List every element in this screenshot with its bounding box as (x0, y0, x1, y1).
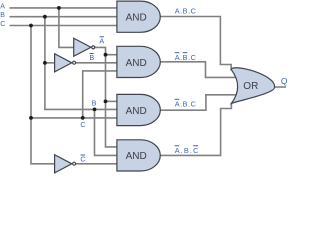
net label Abar.B.C (175, 99, 197, 108)
AND gate 2 (117, 46, 160, 77)
wire C branch up to AND2 (83, 71, 118, 118)
wire B branch down to AND4 (95, 109, 118, 155)
wire AND2 output to OR input 2 (160, 62, 236, 78)
svg-text:C: C (80, 154, 85, 163)
AND gate 1 (117, 1, 160, 32)
OR gate (231, 68, 274, 104)
svg-text:C: C (0, 21, 5, 28)
AND gate 3 (117, 94, 160, 125)
wire A branch down to inverter U1 (59, 8, 74, 48)
node label A-bar at U1 output (99, 37, 104, 46)
svg-text:C: C (80, 120, 85, 129)
junction dot B tee (93, 108, 97, 112)
svg-text:A.B.C: A.B.C (175, 99, 197, 108)
wire AND3 output to OR input 3 (160, 95, 236, 110)
node label B-bar at U2 output (89, 53, 94, 62)
AND gate 4 (117, 140, 160, 171)
junction dot on line A (57, 6, 61, 10)
svg-text:A.B.C: A.B.C (175, 6, 197, 15)
junction dot C tee (29, 116, 33, 120)
junction dot B to inverter U2 (43, 61, 47, 65)
wire input line B (10, 16, 118, 18)
svg-text:Q: Q (281, 76, 288, 86)
svg-text:AND: AND (126, 13, 147, 24)
wire C feed to AND3 (31, 117, 118, 119)
svg-text:OR: OR (243, 81, 258, 92)
junction dot on line C (29, 24, 33, 28)
inverter U1 (A-bar) (74, 38, 91, 56)
svg-text:A.B.C: A.B.C (175, 53, 197, 62)
wire NOT-C net from U3 to AND4 (76, 163, 118, 165)
wire AND4 output to OR input 4 (160, 103, 231, 156)
node label C-bar at U3 output (80, 154, 85, 163)
wire OR output to Q (275, 86, 286, 88)
wire B branch down (45, 17, 118, 110)
wire input line A (10, 7, 118, 9)
svg-text:B: B (92, 99, 97, 108)
svg-text:A: A (0, 3, 5, 10)
svg-text:B: B (0, 12, 5, 19)
inverter U2 (B-bar) (55, 54, 72, 72)
wire NOT-A stub into AND3 (106, 100, 118, 102)
net label Abar.Bbar.C (175, 53, 197, 63)
svg-text:AND: AND (126, 106, 147, 117)
wire NOT-A stub into AND2 (106, 54, 118, 56)
svg-text:A: A (99, 37, 104, 46)
junction dot NOT-A at AND3 (104, 100, 108, 104)
svg-text:A.B.C: A.B.C (175, 146, 200, 155)
net label Abar.B.Cbar (175, 146, 200, 155)
wire AND1 output to OR input 1 (160, 17, 231, 71)
inverter U3 (C-bar) (55, 155, 72, 173)
svg-text:AND: AND (126, 58, 147, 69)
junction dot NOT-A at AND2 (104, 53, 108, 57)
svg-text:AND: AND (126, 151, 147, 162)
wire C branch down (31, 26, 55, 164)
wire B stub into inverter U2 (45, 62, 55, 64)
wire NOT-B net from U2 to AND2 (76, 62, 118, 64)
svg-text:B: B (89, 53, 94, 62)
wire input line C (10, 25, 118, 27)
junction dot C tee up (81, 116, 85, 120)
wire NOT-A net from U1 output down the column (95, 47, 118, 146)
junction dot on line B (43, 15, 47, 19)
